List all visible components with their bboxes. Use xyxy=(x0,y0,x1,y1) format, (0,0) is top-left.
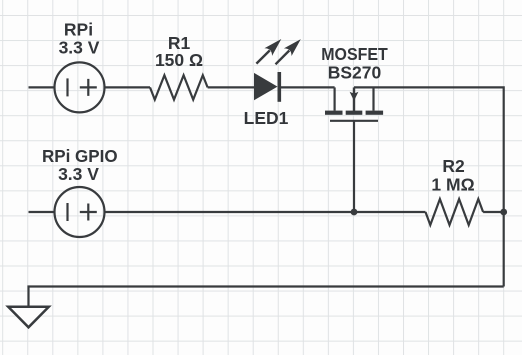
svg-text:150 Ω: 150 Ω xyxy=(155,50,203,70)
LED1 light arrow 2 xyxy=(276,39,301,64)
V1 plus sign xyxy=(80,79,97,96)
resistor R1 zigzag xyxy=(150,75,208,99)
LED1 light arrow 1 xyxy=(256,39,281,64)
voltage source V2 circle xyxy=(55,187,105,237)
svg-text:3.3 V: 3.3 V xyxy=(59,38,100,58)
svg-text:R2: R2 xyxy=(442,156,465,176)
svg-text:RPi: RPi xyxy=(64,19,93,39)
svg-text:1 MΩ: 1 MΩ xyxy=(431,174,474,194)
LED1 triangle xyxy=(254,73,278,100)
LED1 cathode bar xyxy=(278,72,282,102)
wire: R2 to right rail xyxy=(483,211,504,213)
MOSFET gate plate xyxy=(330,120,378,122)
ground symbol xyxy=(8,307,49,328)
V2 minus terminal bar xyxy=(66,203,68,221)
junction dot at R2 / right rail xyxy=(500,209,507,216)
svg-text:RPi GPIO: RPi GPIO xyxy=(42,146,118,166)
wire: MOSFET gate lead down xyxy=(353,121,355,212)
wire: top rail MOSFET source to right, down right side xyxy=(354,87,504,286)
MOSFET drain stub xyxy=(334,87,336,110)
wire: left stub to V2 xyxy=(29,211,55,213)
V1 minus terminal bar xyxy=(66,78,68,96)
voltage source V1 circle xyxy=(55,62,105,112)
V2 plus sign xyxy=(80,204,97,221)
junction dot at gate / GPIO rail xyxy=(351,209,358,216)
wire: left stub to V1 xyxy=(29,86,55,88)
wire: V1 to R1 xyxy=(105,86,151,88)
wire: bottom rail and ground lead xyxy=(29,287,504,307)
resistor R2 zigzag xyxy=(426,199,484,225)
MOSFET Q1 channel bars xyxy=(325,111,383,115)
svg-text:MOSFET: MOSFET xyxy=(321,44,388,64)
svg-text:LED1: LED1 xyxy=(244,108,289,128)
wire: LED1 cathode to MOSFET drain xyxy=(279,86,334,88)
wire: R1 to LED1 xyxy=(208,86,254,88)
svg-text:3.3 V: 3.3 V xyxy=(58,164,99,184)
MOSFET source stub xyxy=(372,87,374,110)
wire: V2 to R2 xyxy=(105,211,426,213)
svg-text:BS270: BS270 xyxy=(328,63,382,83)
MOSFET body arrow xyxy=(350,87,359,111)
